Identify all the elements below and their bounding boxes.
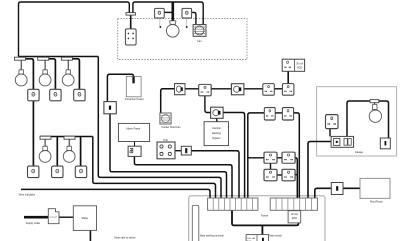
svg-text:Cooker Hood Fan: Cooker Hood Fan <box>162 126 182 129</box>
svg-text:Fan: Fan <box>197 40 202 43</box>
svg-text:Meter tails to switch: Meter tails to switch <box>114 236 136 239</box>
svg-text:System: System <box>212 136 221 140</box>
svg-text:RCD: RCD <box>292 217 297 220</box>
svg-text:Immersion Heater: Immersion Heater <box>125 98 144 101</box>
svg-text:RCD: RCD <box>297 66 302 69</box>
svg-text:Heating: Heating <box>212 131 221 135</box>
svg-text:Fuses: Fuses <box>261 213 269 217</box>
svg-text:Main switch: Main switch <box>269 235 282 238</box>
svg-text:Main earthing terminal: Main earthing terminal <box>200 234 224 237</box>
svg-text:100 mA: 100 mA <box>247 237 255 240</box>
svg-text:Hob: Hob <box>163 139 168 142</box>
svg-text:30 mA: 30 mA <box>296 62 303 65</box>
svg-text:Meter: Meter <box>82 216 89 220</box>
svg-text:Central: Central <box>212 126 221 130</box>
svg-text:Supply Cable: Supply Cable <box>26 222 41 225</box>
svg-text:30 mA: 30 mA <box>291 213 298 216</box>
svg-text:Alarm Panel: Alarm Panel <box>126 127 141 131</box>
svg-text:Garage: Garage <box>355 151 364 154</box>
svg-text:Cut-out: Cut-out <box>50 216 58 219</box>
svg-text:Drive Indicative: Drive Indicative <box>19 194 36 197</box>
svg-text:Pond Pump: Pond Pump <box>370 200 383 203</box>
